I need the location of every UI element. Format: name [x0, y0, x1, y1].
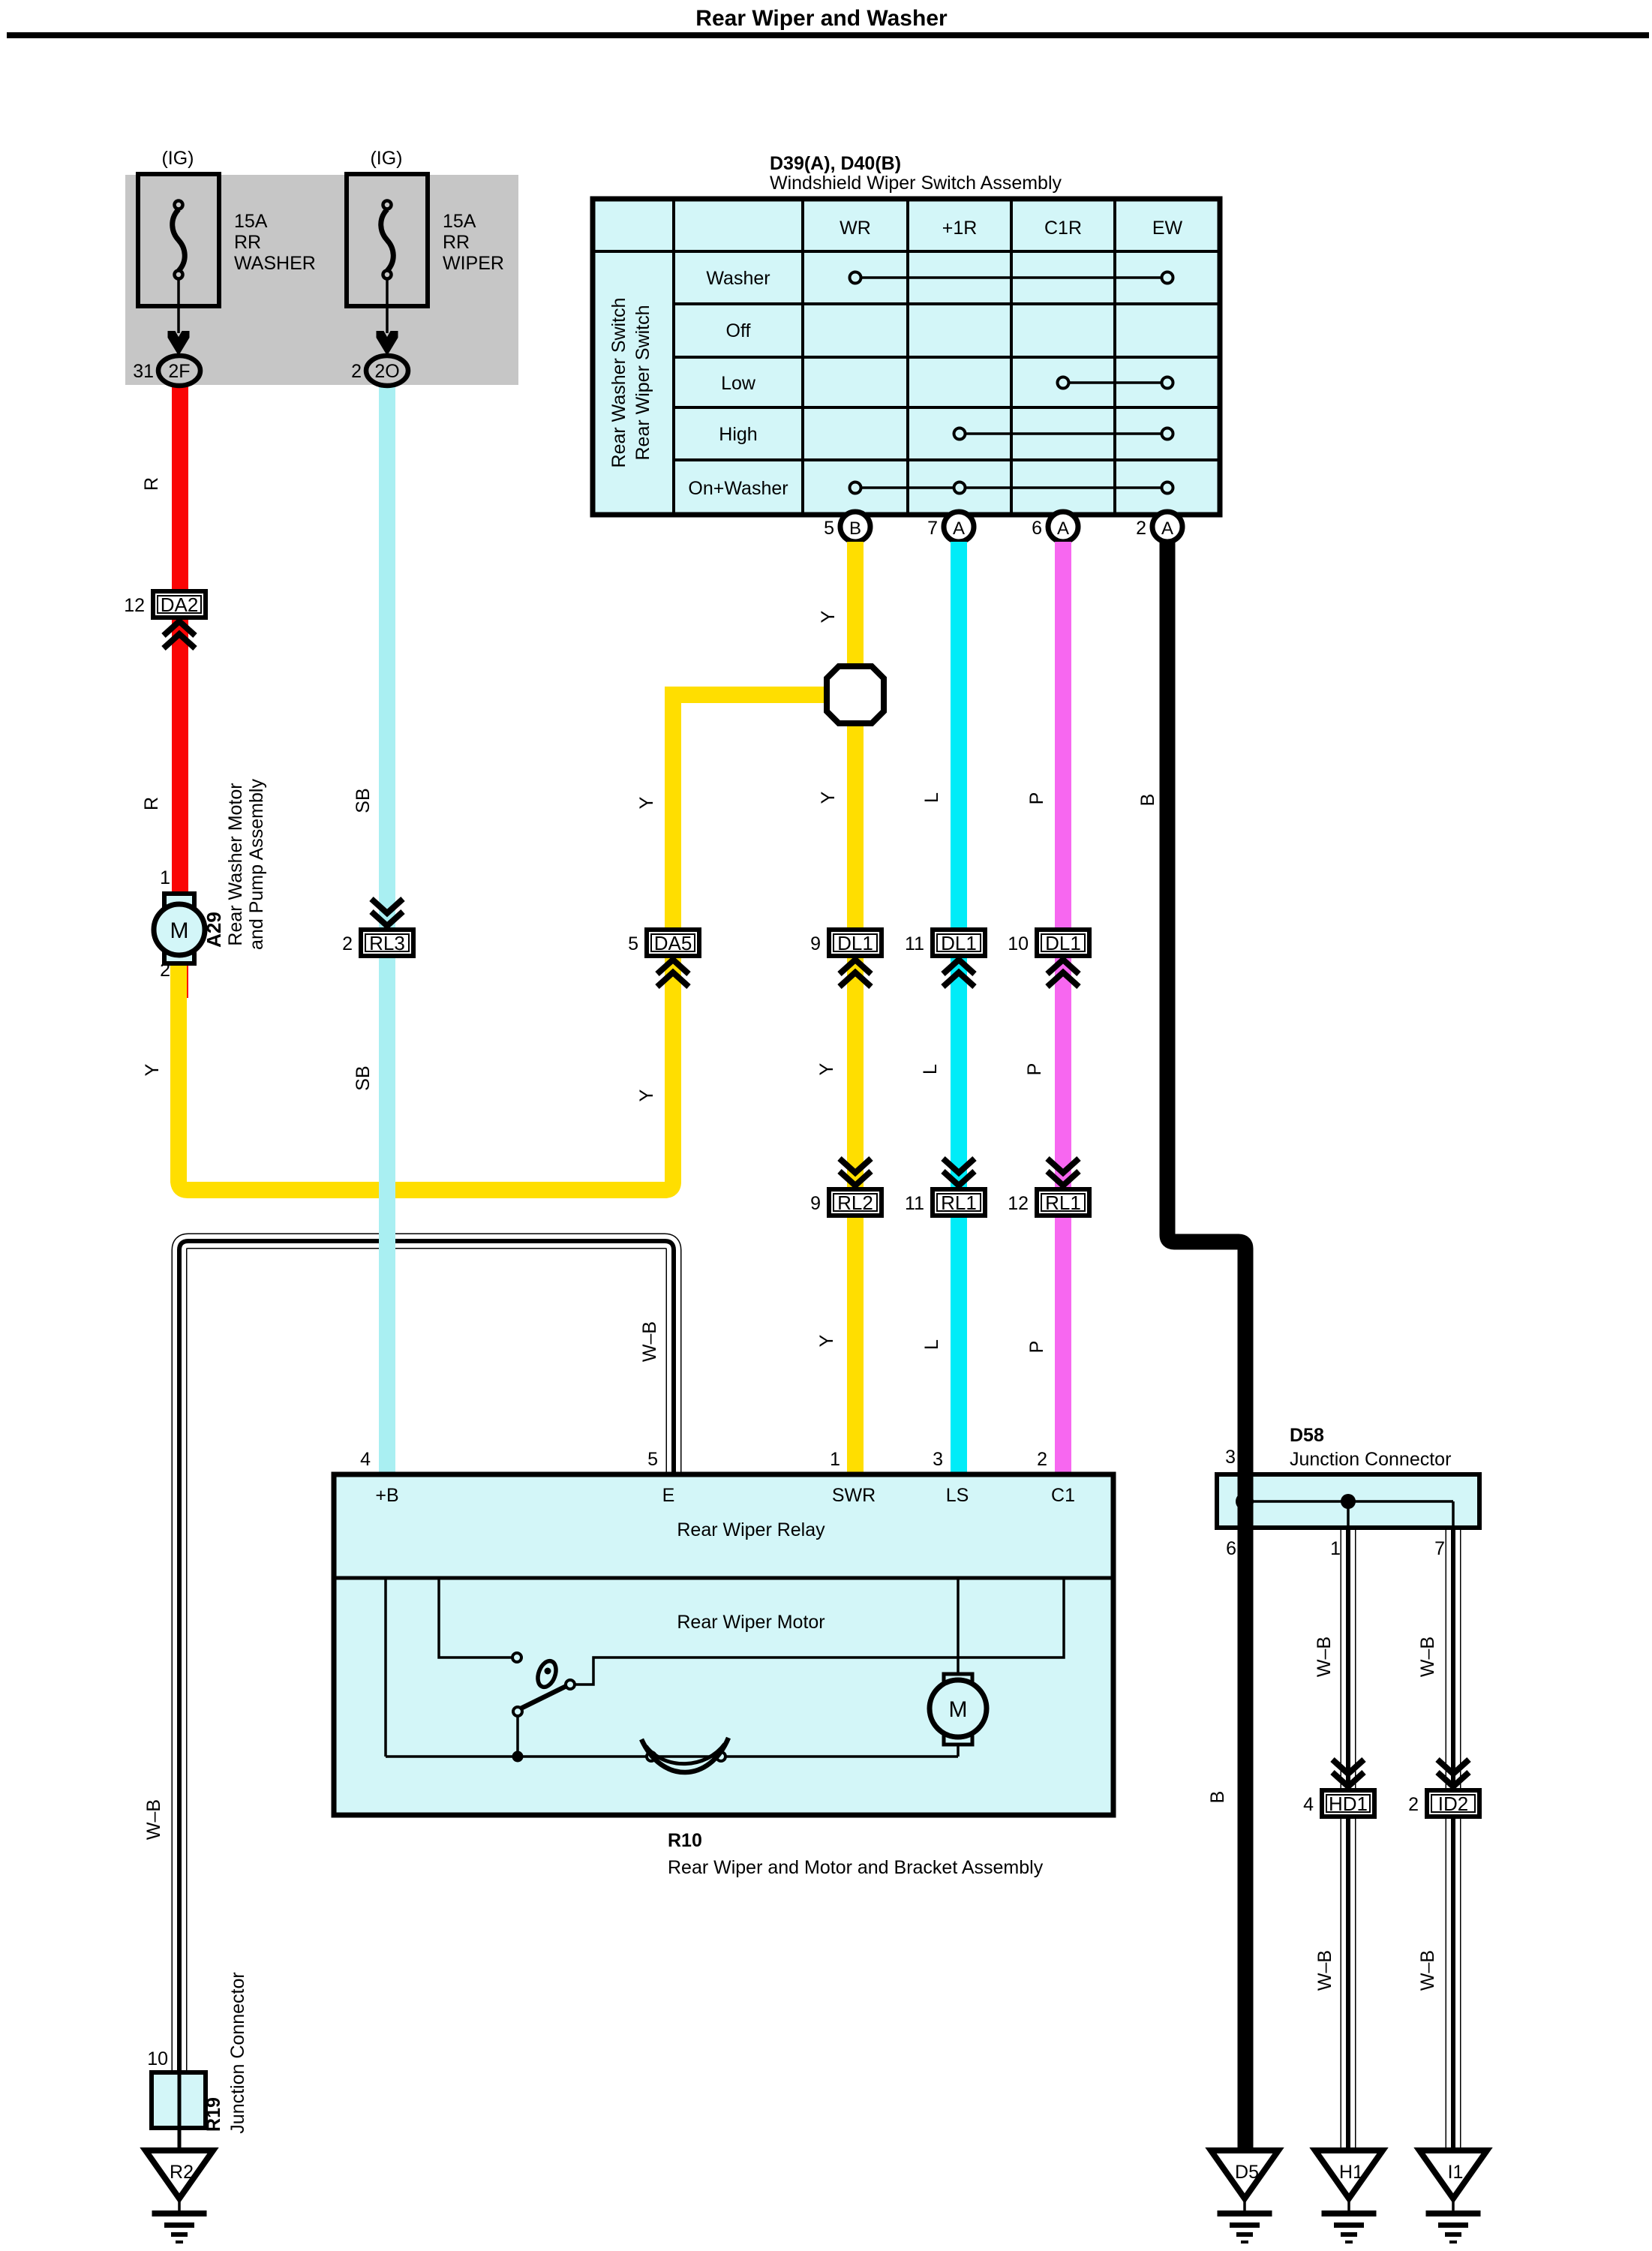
svg-text:(IG): (IG) [370, 148, 402, 169]
svg-text:2: 2 [342, 933, 353, 954]
svg-text:Y: Y [142, 1063, 163, 1076]
svg-text:D5: D5 [1235, 2162, 1259, 2183]
relay internal wiring [386, 1578, 1064, 1757]
label SB lower [353, 1065, 374, 1090]
windshield wiper switch assembly D39(A) D40(B) table frame [593, 199, 1220, 515]
label W-B right1 lower [1314, 1950, 1335, 1991]
svg-text:2: 2 [351, 361, 362, 382]
svg-text:I1: I1 [1448, 2162, 1464, 2183]
svg-text:2: 2 [1037, 1449, 1047, 1470]
svg-text:7: 7 [1434, 1538, 1445, 1559]
wire L switch pin 7A to relay LS [951, 542, 967, 1477]
svg-text:P: P [1026, 792, 1047, 805]
label Y above octagon [818, 610, 839, 623]
svg-text:A: A [1161, 518, 1173, 539]
svg-text:Washer: Washer [706, 268, 770, 289]
svg-text:Y: Y [818, 791, 839, 804]
svg-text:WR: WR [840, 218, 871, 239]
relay contact fixed point [512, 1653, 521, 1662]
connector RL1 pin 12 [1008, 1189, 1089, 1216]
label W-B right2 lower [1417, 1950, 1438, 1991]
svg-text:R2: R2 [170, 2162, 194, 2183]
terminal oval 2F pin 31 [133, 356, 200, 386]
svg-text:L: L [920, 1064, 941, 1074]
label Rear Wiper Relay [677, 1519, 825, 1540]
connector RL1 pin 12 chevron [1047, 1159, 1079, 1186]
svg-text:E: E [662, 1485, 675, 1506]
label B lower [1207, 1791, 1228, 1804]
connector DL1 pin 11 chevron [943, 960, 975, 987]
svg-text:2F: 2F [168, 361, 190, 382]
connector RL1 pin 11 chevron [943, 1159, 975, 1186]
svg-text:31: 31 [133, 361, 154, 382]
relay switch arm [513, 1680, 575, 1716]
svg-text:L: L [921, 1339, 942, 1350]
svg-text:RL3: RL3 [369, 932, 405, 954]
svg-text:3: 3 [933, 1449, 943, 1470]
svg-text:C1R: C1R [1044, 218, 1082, 239]
D58 pin 6 [1226, 1538, 1236, 1559]
svg-text:Y: Y [816, 1334, 837, 1347]
svg-text:4: 4 [1303, 1794, 1314, 1815]
svg-text:On+Washer: On+Washer [688, 478, 788, 499]
junction dot [512, 1751, 524, 1763]
label R10 [668, 1830, 702, 1851]
label W-B right2 upper [1417, 1636, 1438, 1677]
svg-text:WASHER: WASHER [234, 253, 316, 274]
svg-text:B: B [1137, 794, 1158, 807]
svg-text:Rear Washer Motor: Rear Washer Motor [225, 783, 246, 945]
svg-text:SWR: SWR [832, 1485, 876, 1506]
svg-text:12: 12 [1008, 1193, 1029, 1214]
svg-text:C1: C1 [1051, 1485, 1075, 1506]
D58 internal bus [1236, 1492, 1453, 1528]
relay coil [535, 1658, 560, 1689]
svg-text:11: 11 [905, 1193, 924, 1214]
svg-text:DL1: DL1 [837, 932, 873, 954]
connector DL1 pin 10 chevron [1047, 960, 1079, 987]
svg-text:10: 10 [147, 2048, 168, 2069]
label Rear Wiper and Motor and Bracket Assembly [668, 1857, 1044, 1878]
svg-text:A29: A29 [203, 912, 225, 948]
connector DA5 [628, 930, 699, 956]
svg-text:DA2: DA2 [161, 594, 199, 616]
label Y below octagon [818, 791, 839, 804]
svg-text:11: 11 [905, 933, 924, 954]
svg-text:A: A [953, 518, 965, 539]
svg-text:Rear Wiper Relay: Rear Wiper Relay [677, 1519, 825, 1540]
svg-text:Low: Low [721, 373, 756, 394]
label P upper [1026, 792, 1047, 805]
relay pin labels [375, 1485, 1075, 1506]
D58 pin 1 [1330, 1538, 1341, 1559]
connector ID2 chevron [1437, 1760, 1469, 1787]
svg-text:R: R [141, 477, 162, 491]
svg-text:Rear Wiper Switch: Rear Wiper Switch [632, 305, 653, 461]
connector ID2 [1408, 1790, 1479, 1817]
park switch cam [641, 1738, 728, 1772]
label D39(A), D40(B) [770, 153, 901, 174]
svg-text:10: 10 [1008, 933, 1029, 954]
svg-text:1: 1 [830, 1449, 840, 1470]
connector DL1 pin 10 [1008, 930, 1089, 956]
connector DA2 chevron [164, 621, 195, 648]
label Y left branch lower [636, 1089, 657, 1101]
svg-text:EW: EW [1152, 218, 1183, 239]
label R upper [141, 477, 162, 491]
label Junction Connector D58 [1290, 1449, 1451, 1470]
svg-text:9: 9 [810, 1193, 821, 1214]
washer motor pin 2 [160, 960, 170, 981]
svg-text:Rear Wiper Motor: Rear Wiper Motor [677, 1612, 824, 1633]
svg-text:B: B [1207, 1791, 1228, 1804]
wire W-B from relay pin E loop to R19 [179, 1241, 674, 2072]
svg-text:HD1: HD1 [1329, 1793, 1368, 1815]
table header pins WR +1R C1R EW [840, 218, 1182, 239]
wire W-B D58 pin 7 to I1 [1446, 1528, 1461, 2150]
label Junction Connector R19 [227, 1972, 248, 2133]
ground H1 [1315, 2150, 1383, 2243]
label L upper [921, 792, 942, 803]
svg-text:6: 6 [1226, 1538, 1236, 1559]
connector DL1 pin 9 [810, 930, 882, 956]
wire Y washer motor to octagon junction [179, 695, 855, 1190]
svg-text:and Pump Assembly: and Pump Assembly [246, 779, 267, 950]
rear wiper motor M [930, 1578, 987, 1757]
svg-text:Y: Y [636, 796, 657, 809]
svg-text:M: M [949, 1697, 968, 1722]
svg-text:DL1: DL1 [1045, 932, 1081, 954]
connector HD1 [1303, 1790, 1374, 1817]
svg-text:RL1: RL1 [1045, 1192, 1081, 1214]
wire B switch pin 2A to ground D5 [1167, 542, 1245, 2150]
svg-text:3: 3 [1225, 1447, 1236, 1468]
power source shading box [125, 175, 518, 385]
svg-text:SB: SB [353, 788, 374, 813]
svg-text:2O: 2O [374, 361, 399, 382]
label L lower [921, 1339, 942, 1350]
svg-text:4: 4 [360, 1449, 371, 1470]
label W-B right1 upper [1314, 1636, 1335, 1677]
svg-text:W–B: W–B [143, 1799, 164, 1840]
svg-text:15A: 15A [443, 211, 476, 232]
svg-text:RR: RR [443, 232, 470, 253]
table row labels [688, 268, 788, 499]
D58 pin 7 [1434, 1538, 1445, 1559]
label Rear Wiper Motor [677, 1612, 824, 1633]
svg-text:High: High [719, 424, 757, 445]
svg-text:D39(A), D40(B): D39(A), D40(B) [770, 153, 901, 174]
svg-text:W–B: W–B [1417, 1950, 1438, 1991]
fuse 15A RR WIPER [347, 148, 504, 356]
svg-text:6: 6 [1032, 518, 1042, 539]
connector DL1 pin 9 chevron [840, 960, 871, 987]
washer motor A29 pump [154, 894, 205, 963]
svg-text:Y: Y [816, 1062, 837, 1075]
svg-text:Rear Washer Switch: Rear Washer Switch [608, 298, 629, 468]
rotated label Rear Washer Switch / Rear Wiper Switch [608, 298, 653, 468]
svg-text:5: 5 [628, 933, 638, 954]
label Y left branch upper [636, 796, 657, 809]
switch contacts Washer row [850, 272, 1173, 284]
D58 black wire overlay [1238, 1474, 1254, 1528]
title: Rear Wiper and Washer [695, 6, 948, 31]
label Windshield Wiper Switch Assembly [770, 173, 1062, 194]
svg-text:2: 2 [1136, 518, 1146, 539]
svg-text:2: 2 [1408, 1794, 1419, 1815]
label Y pump branch [142, 1063, 163, 1076]
svg-text:1: 1 [1330, 1538, 1341, 1559]
connector DA2 [124, 591, 206, 618]
svg-text:DL1: DL1 [941, 932, 977, 954]
svg-text:9: 9 [810, 933, 821, 954]
octagon junction on Y wire [827, 666, 884, 723]
label Rear Washer Motor and Pump Assembly [225, 779, 267, 950]
connector RL3 [342, 930, 413, 956]
svg-text:+B: +B [375, 1485, 398, 1506]
svg-text:SB: SB [353, 1065, 374, 1090]
connector DA5 chevron [657, 960, 689, 987]
label W-B relay E [639, 1321, 660, 1362]
svg-text:M: M [170, 918, 189, 943]
svg-text:12: 12 [124, 595, 145, 616]
label L mid [920, 1064, 941, 1074]
svg-text:RL1: RL1 [941, 1192, 977, 1214]
svg-text:Junction Connector: Junction Connector [1290, 1449, 1451, 1470]
wire SB fuse 2O to relay +B [379, 383, 395, 1477]
svg-text:H1: H1 [1339, 2162, 1363, 2183]
svg-text:Off: Off [726, 320, 751, 341]
ground R2 [146, 2150, 213, 2243]
label W-B left [143, 1799, 164, 1840]
ground I1 [1419, 2150, 1487, 2243]
D58 pin 3 [1225, 1447, 1236, 1468]
R10 rear wiper relay box [334, 1474, 1113, 1815]
D58 junction connector box [1217, 1474, 1479, 1528]
svg-text:P: P [1024, 1063, 1045, 1076]
svg-text:B: B [849, 518, 861, 539]
wire Y switch pin B to relay SWR [847, 542, 864, 1477]
connector RL1 pin 11 [905, 1189, 985, 1216]
connector HD1 chevron [1332, 1760, 1364, 1787]
switch connector pins 5(B) 7(A) 6(A) 2(A) [824, 512, 1182, 542]
svg-text:L: L [921, 792, 942, 803]
svg-text:Windshield Wiper Switch Assemb: Windshield Wiper Switch Assembly [770, 173, 1062, 194]
svg-text:W–B: W–B [1417, 1636, 1438, 1677]
wire R fuse 2F to washer motor [172, 383, 188, 998]
svg-text:Rear Wiper and Washer: Rear Wiper and Washer [695, 6, 948, 31]
label P lower [1026, 1341, 1047, 1354]
svg-text:1: 1 [160, 867, 170, 888]
svg-text:5: 5 [824, 518, 834, 539]
svg-text:Y: Y [636, 1089, 657, 1101]
svg-text:DA5: DA5 [654, 932, 692, 954]
title rule [7, 32, 1649, 38]
label P mid [1024, 1063, 1045, 1076]
svg-text:5: 5 [647, 1449, 658, 1470]
label A29 [203, 912, 225, 948]
R19 pin 10 [147, 2048, 168, 2069]
svg-text:Junction Connector: Junction Connector [227, 1972, 248, 2133]
svg-text:R19: R19 [203, 2097, 224, 2132]
switch contacts High row [954, 428, 1173, 440]
svg-text:A: A [1057, 518, 1069, 539]
svg-text:+1R: +1R [942, 218, 978, 239]
connector DL1 pin 11 [905, 930, 985, 956]
svg-text:W–B: W–B [1314, 1636, 1335, 1677]
svg-text:(IG): (IG) [161, 148, 194, 169]
washer motor pin 1 [160, 867, 170, 888]
wire P switch pin 6A to relay C1 [1055, 542, 1071, 1477]
label Y mid [816, 1062, 837, 1075]
fuse 15A RR WASHER [138, 148, 316, 356]
svg-text:2: 2 [160, 960, 170, 981]
svg-text:7: 7 [927, 518, 938, 539]
wire W-B D58 pin 1 to H1 [1341, 1528, 1356, 2150]
svg-text:W–B: W–B [639, 1321, 660, 1362]
relay pin numbers [360, 1449, 1047, 1470]
ground D5 [1211, 2150, 1278, 2243]
svg-text:RL2: RL2 [837, 1192, 873, 1214]
svg-text:P: P [1026, 1341, 1047, 1354]
svg-text:RR: RR [234, 232, 261, 253]
label R19 [203, 2097, 224, 2132]
svg-text:Rear Wiper and Motor and Brack: Rear Wiper and Motor and Bracket Assembl… [668, 1857, 1044, 1878]
label B upper [1137, 794, 1158, 807]
R19 junction connector box [152, 2072, 206, 2150]
connector RL3 chevron [371, 899, 403, 926]
connector RL2 pin 9 [810, 1189, 882, 1216]
svg-text:WIPER: WIPER [443, 253, 504, 274]
svg-text:R10: R10 [668, 1830, 702, 1851]
svg-text:R: R [141, 797, 162, 810]
switch contacts Low row [1058, 377, 1173, 389]
switch contacts On+Washer row [850, 482, 1173, 494]
label D58 [1290, 1425, 1324, 1446]
label R lower [141, 797, 162, 810]
svg-text:LS: LS [946, 1485, 969, 1506]
label SB upper [353, 788, 374, 813]
svg-text:ID2: ID2 [1438, 1793, 1468, 1815]
connector RL2 pin 9 chevron [840, 1159, 871, 1186]
svg-text:15A: 15A [234, 211, 268, 232]
terminal oval 2O pin 2 [351, 356, 408, 386]
svg-text:D58: D58 [1290, 1425, 1324, 1446]
label Y above SWR [816, 1334, 837, 1347]
svg-text:Y: Y [818, 610, 839, 623]
svg-text:W–B: W–B [1314, 1950, 1335, 1991]
